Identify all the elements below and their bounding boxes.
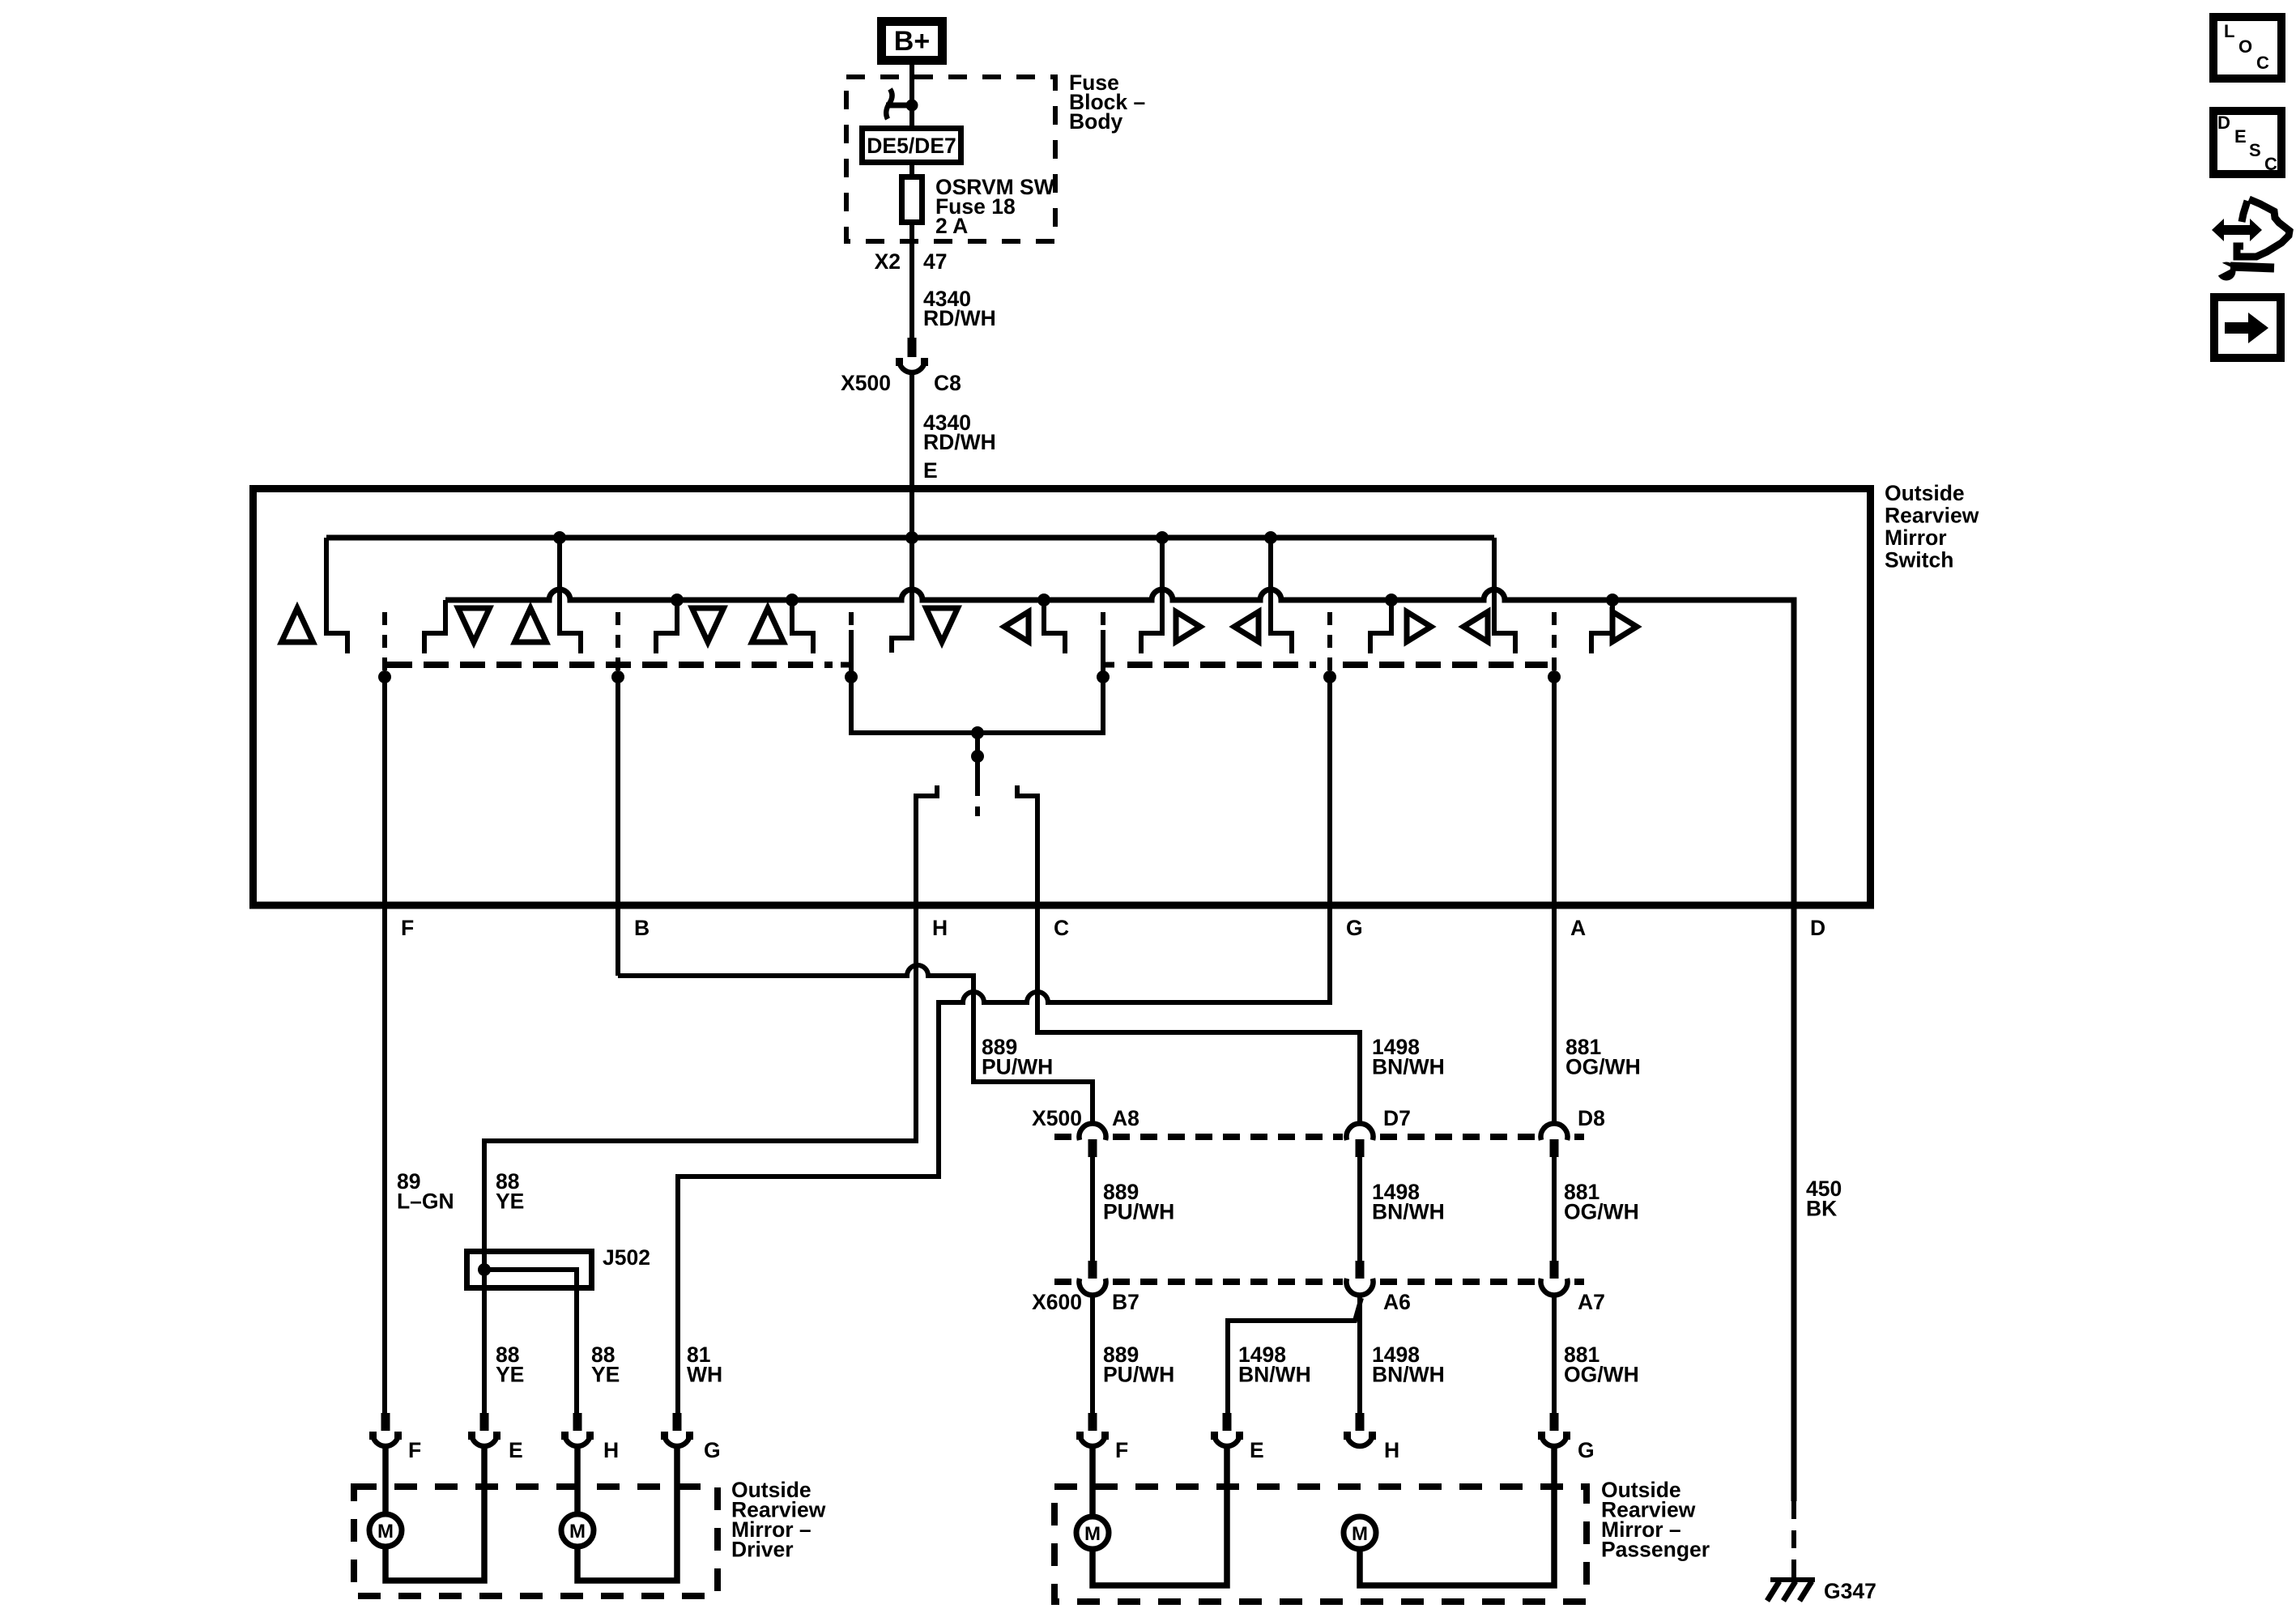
wire 881 OG/WH pin A to X500 D8 <box>1552 672 1557 1125</box>
wiper pivot dot common-left <box>845 670 858 683</box>
connector X600 B7 <box>1080 1261 1106 1296</box>
svg-text:D: D <box>2217 113 2230 133</box>
svg-text:YE: YE <box>496 1363 524 1387</box>
contact 3 <box>560 538 581 653</box>
svg-text:L: L <box>2224 21 2234 41</box>
svg-text:A: A <box>1570 916 1586 940</box>
svg-text:Body: Body <box>1069 109 1123 134</box>
label wire 1498 BN/WH (lower left) <box>1238 1343 1311 1387</box>
wire 881 OG/WH A7 to passenger G <box>1552 1295 1557 1413</box>
arrow up (driver mirror up) <box>282 608 313 642</box>
driver mirror motor M left-right <box>369 1514 402 1547</box>
wiper link bar <box>851 677 1103 733</box>
contact 4 <box>656 600 677 653</box>
arrow right <box>1407 612 1431 642</box>
E wire into switch + contact (common feed) <box>892 487 912 653</box>
passenger mirror motor M left-right <box>1076 1517 1109 1549</box>
arrow right <box>1612 612 1637 642</box>
svg-text:B: B <box>634 916 650 940</box>
driver mirror motor M up-down <box>561 1514 594 1547</box>
wiper pivot dot A <box>1548 670 1561 683</box>
wiper stem A <box>1552 612 1557 672</box>
svg-text:BN/WH: BN/WH <box>1372 1200 1445 1224</box>
svg-text:H: H <box>1384 1438 1399 1462</box>
arrow down <box>458 608 490 642</box>
wire 88 YE J502 to driver H <box>484 1270 577 1413</box>
wiper stem B <box>616 612 620 672</box>
arrow down <box>692 608 724 642</box>
junction dot bus2 x1718 <box>1385 594 1398 606</box>
label passenger pin G <box>1578 1438 1595 1462</box>
fuse rating box DE5/DE7 <box>863 129 961 163</box>
label Outside Rearview Mirror - Passenger <box>1601 1478 1710 1562</box>
svg-text:C: C <box>1054 916 1069 940</box>
label J502 <box>603 1245 650 1270</box>
coupling dashed line (left) <box>387 662 833 668</box>
wiper stem common-left <box>849 612 854 677</box>
label pin E <box>923 458 938 483</box>
label passenger pin H <box>1384 1438 1399 1462</box>
label D8 <box>1578 1106 1605 1130</box>
svg-text:B7: B7 <box>1112 1290 1139 1314</box>
arrow left <box>1004 612 1029 642</box>
label X2 <box>875 249 901 274</box>
common fixed contact left + pin H wire <box>484 785 937 1413</box>
svg-text:Rearview: Rearview <box>1885 504 1979 528</box>
connector pin passenger G <box>1538 1413 1570 1446</box>
wire 89 L-GN pin F to driver mirror <box>382 672 387 1413</box>
svg-text:X500: X500 <box>1032 1106 1082 1130</box>
icon next-page arrow box <box>2214 297 2281 358</box>
svg-text:BK: BK <box>1806 1197 1837 1221</box>
icon DESC box <box>2213 111 2281 174</box>
wire 889 PU/WH A8 to B7 <box>1090 1156 1095 1261</box>
label wire 881 OG/WH (lower) <box>1564 1343 1639 1387</box>
label wire 1498 BN/WH (upper) <box>1372 1035 1445 1079</box>
wire 1498 BN/WH pin G to driver mirror G (81 WH) <box>678 677 1330 1413</box>
label wire 889 PU/WH (mid) <box>1103 1180 1174 1224</box>
svg-text:PU/WH: PU/WH <box>1103 1363 1174 1387</box>
junction dot at clip <box>906 100 918 112</box>
svg-text:E: E <box>509 1438 523 1462</box>
connector X500 D7 <box>1347 1123 1374 1157</box>
connector pin driver F <box>369 1413 402 1446</box>
contact 5 <box>792 600 813 653</box>
svg-text:C8: C8 <box>934 371 961 395</box>
label Outside Rearview Mirror - Driver <box>731 1478 826 1562</box>
svg-text:E: E <box>2234 126 2247 147</box>
wire 881 OG/WH D8 to A7 <box>1552 1156 1557 1261</box>
junction dot bus2 x1991 <box>1606 594 1619 606</box>
label pin B <box>634 916 650 940</box>
connector row X600 dashed line <box>1054 1279 1584 1285</box>
label passenger pin E <box>1250 1438 1264 1462</box>
svg-text:O: O <box>2238 36 2252 57</box>
connector row X500 dashed line <box>1054 1134 1584 1140</box>
svg-text:A7: A7 <box>1578 1290 1605 1314</box>
svg-text:G: G <box>1346 916 1363 940</box>
wire 4340 RD/WH to switch <box>909 371 914 487</box>
contact 2 (bus2 left end) <box>424 600 445 653</box>
wire B+ to fuse block <box>909 65 914 128</box>
label pin 47 <box>923 249 947 274</box>
wiper pivot dot F <box>378 670 391 683</box>
contact 9 (bus1 right end) <box>1494 538 1515 653</box>
label wire 1498 BN/WH (mid) <box>1372 1180 1445 1224</box>
wire 1498 BN/WH D7 to A6 <box>1357 1156 1362 1261</box>
junction dot bus2 x978 <box>786 594 799 606</box>
wire driver motor to E <box>386 1445 484 1581</box>
svg-text:F: F <box>401 916 414 940</box>
icon LOC box <box>2213 17 2281 79</box>
wire 450 BK dashed to ground <box>1791 1501 1796 1577</box>
svg-text:OG/WH: OG/WH <box>1564 1363 1639 1387</box>
common stem <box>975 733 980 796</box>
fuse OSRVM SW Fuse 18 2A <box>902 177 922 223</box>
bus wire 1 (from pin E) <box>326 535 1494 541</box>
svg-text:D: D <box>1810 916 1825 940</box>
wire 1498 BN/WH A6 to passenger H <box>1357 1295 1362 1413</box>
wire 1498 BN/WH branch A6 to passenger E <box>1228 1298 1361 1413</box>
passenger mirror box (dashed) <box>1054 1487 1587 1602</box>
svg-text:X2: X2 <box>875 249 901 274</box>
label pin D <box>1810 916 1825 940</box>
arrow up <box>515 608 547 642</box>
connector pin driver H <box>561 1413 594 1446</box>
label wire 4340 RD/WH (lower) <box>923 411 996 454</box>
label wire 881 OG/WH (mid) <box>1564 1180 1639 1224</box>
label passenger pin F <box>1115 1438 1128 1462</box>
wire DE5/DE7 to fuse <box>909 162 914 177</box>
label wire 889 PU/WH (lower) <box>1103 1343 1174 1387</box>
label Outside Rearview Mirror Switch <box>1885 481 1979 572</box>
label wire 88 YE (lower left) <box>496 1343 524 1387</box>
arrow right <box>1176 612 1200 642</box>
connector pin passenger H <box>1344 1413 1376 1446</box>
wire 889 PU/WH pin B to X500 A8 <box>618 672 1093 1125</box>
label pin C <box>1054 916 1069 940</box>
svg-text:RD/WH: RD/WH <box>923 430 996 454</box>
svg-text:G: G <box>704 1438 721 1462</box>
contact 10 <box>1591 600 1612 653</box>
svg-text:DE5/DE7: DE5/DE7 <box>867 134 956 158</box>
svg-text:PU/WH: PU/WH <box>982 1055 1053 1079</box>
svg-text:J502: J502 <box>603 1245 650 1270</box>
junction dot bus1 x1569 <box>1264 531 1277 544</box>
label B7 <box>1112 1290 1139 1314</box>
label X500 (row) <box>1032 1106 1082 1130</box>
label pin F <box>401 916 414 940</box>
splice J502 junction dot <box>478 1263 491 1276</box>
svg-text:X600: X600 <box>1032 1290 1082 1314</box>
coupling stub at left linkage wiper <box>841 662 851 668</box>
wire driver motor to G <box>577 1445 677 1581</box>
label wire 88 YE (upper) <box>496 1169 524 1214</box>
wire driver F to motor <box>382 1445 389 1515</box>
label wire 881 OG/WH (upper) <box>1565 1035 1641 1079</box>
connector X600 A6 <box>1347 1261 1374 1296</box>
common stem dot <box>971 750 984 763</box>
wire passenger F to motor <box>1089 1445 1096 1517</box>
svg-text:B+: B+ <box>894 26 930 57</box>
label pin H <box>932 916 948 940</box>
svg-text:H: H <box>603 1438 619 1462</box>
svg-text:E: E <box>1250 1438 1264 1462</box>
coupling dashed line (right) <box>1343 662 1548 668</box>
label wire 450 BK <box>1806 1177 1842 1221</box>
label A7 <box>1578 1290 1605 1314</box>
wire fuse to connector X2 <box>909 222 914 339</box>
arrow up <box>752 608 784 642</box>
svg-text:M: M <box>569 1521 586 1543</box>
svg-text:47: 47 <box>923 249 947 274</box>
connector pin driver E <box>468 1413 501 1446</box>
arrow down <box>926 608 958 642</box>
svg-text:M: M <box>1084 1523 1101 1545</box>
splice J502 box <box>467 1252 592 1288</box>
wire passenger motor to G <box>1360 1445 1554 1585</box>
svg-text:A8: A8 <box>1112 1106 1139 1130</box>
svg-text:H: H <box>932 916 948 940</box>
svg-text:Driver: Driver <box>731 1538 794 1562</box>
wiper stem common-right <box>1101 612 1105 677</box>
label A6 <box>1383 1290 1411 1314</box>
label G347 <box>1824 1579 1876 1603</box>
svg-text:Mirror: Mirror <box>1885 526 1947 550</box>
label wire 81 WH <box>687 1343 722 1387</box>
svg-text:G: G <box>1578 1438 1595 1462</box>
contact 8 <box>1370 600 1391 653</box>
svg-text:C: C <box>2256 53 2269 73</box>
svg-text:BN/WH: BN/WH <box>1372 1363 1445 1387</box>
svg-text:D8: D8 <box>1578 1106 1605 1130</box>
label wire 889 PU/WH (upper) <box>982 1035 1053 1079</box>
junction dot bus1 x1435 <box>1156 531 1169 544</box>
svg-text:S: S <box>2249 140 2261 160</box>
junction dot bus1 x691 <box>553 531 566 544</box>
label pin G <box>1346 916 1363 940</box>
label A8 <box>1112 1106 1139 1130</box>
label driver pin E <box>509 1438 523 1462</box>
svg-text:G347: G347 <box>1824 1579 1876 1603</box>
bus wire 2 (to pin D) with crossover humps <box>445 589 1794 1501</box>
wire driver H to motor <box>574 1445 581 1515</box>
fuse holder clip <box>886 89 912 119</box>
junction dot bus1 x1126 <box>905 531 918 544</box>
label wire 1498 BN/WH (lower right) <box>1372 1343 1445 1387</box>
coupling dashed line (middle) <box>1127 662 1316 668</box>
connector X500 C8 (inline) <box>896 338 928 372</box>
fuse block - body (dashed box) <box>846 77 1055 241</box>
label wire 88 YE (lower right) <box>591 1343 620 1387</box>
label wire 89 L-GN <box>397 1169 454 1214</box>
common fixed contact right + pin C wire <box>1017 785 1360 1125</box>
svg-text:Outside: Outside <box>1885 481 1965 505</box>
wiper stem G <box>1327 612 1332 672</box>
label Fuse Block - Body <box>1069 70 1145 134</box>
contact 1 (bus1 left end) <box>326 538 347 653</box>
label C8 <box>934 371 961 395</box>
svg-text:X500: X500 <box>841 371 891 395</box>
label X600 (row) <box>1032 1290 1082 1314</box>
svg-text:D7: D7 <box>1383 1106 1411 1130</box>
label OSRVM SW Fuse 18 2A <box>935 175 1054 238</box>
passenger mirror motor M up-down <box>1344 1517 1376 1549</box>
svg-text:F: F <box>1115 1438 1128 1462</box>
common contact gap dash <box>975 806 980 816</box>
contact 7 <box>1271 538 1292 653</box>
arrow left <box>1463 612 1488 642</box>
junction dot bus2 x1289 <box>1037 594 1050 606</box>
ground symbol G347 <box>1767 1580 1815 1601</box>
svg-text:RD/WH: RD/WH <box>923 306 996 330</box>
svg-text:YE: YE <box>591 1363 620 1387</box>
svg-text:M: M <box>377 1521 394 1543</box>
connector X500 D8 <box>1540 1123 1567 1157</box>
driver mirror box (dashed) <box>354 1487 718 1596</box>
arrow left <box>1234 612 1259 642</box>
connector pin passenger E <box>1211 1413 1243 1446</box>
coupling stub at right linkage wiper <box>1103 662 1114 668</box>
wiper pivot dot B <box>611 670 624 683</box>
svg-text:C: C <box>2264 154 2277 174</box>
svg-text:WH: WH <box>687 1363 722 1387</box>
svg-text:L–GN: L–GN <box>397 1189 454 1214</box>
svg-text:M: M <box>1352 1523 1368 1545</box>
label driver pin G <box>704 1438 721 1462</box>
outside rearview mirror switch box <box>253 489 1871 906</box>
connector pin driver G <box>661 1413 693 1446</box>
svg-text:Switch: Switch <box>1885 548 1953 572</box>
wire passenger motor to E <box>1093 1445 1227 1585</box>
power feed B+ box <box>882 22 943 61</box>
junction dot bus2 x836 <box>671 594 684 606</box>
svg-text:E: E <box>923 458 938 483</box>
wire 889 PU/WH B7 to passenger F <box>1090 1295 1095 1413</box>
link bar junction dot <box>971 726 984 739</box>
svg-text:F: F <box>408 1438 421 1462</box>
label driver pin H <box>603 1438 619 1462</box>
svg-text:A6: A6 <box>1383 1290 1411 1314</box>
wiper pivot dot G <box>1323 670 1336 683</box>
label X500 (top) <box>841 371 891 395</box>
svg-text:YE: YE <box>496 1189 524 1214</box>
contact 11 <box>1044 600 1065 653</box>
connector X500 A8 <box>1080 1123 1106 1157</box>
svg-text:BN/WH: BN/WH <box>1238 1363 1311 1387</box>
label driver pin F <box>408 1438 421 1462</box>
wiper pivot dot common-right <box>1097 670 1110 683</box>
wiper stem F <box>382 612 387 672</box>
svg-text:OG/WH: OG/WH <box>1564 1200 1639 1224</box>
connector X600 A7 <box>1540 1261 1567 1296</box>
connector pin passenger F <box>1076 1413 1109 1446</box>
contact 6 <box>1141 538 1162 653</box>
label D7 <box>1383 1106 1411 1130</box>
svg-text:2 A: 2 A <box>935 214 968 238</box>
svg-text:Passenger: Passenger <box>1601 1538 1710 1562</box>
svg-text:OG/WH: OG/WH <box>1565 1055 1641 1079</box>
svg-text:PU/WH: PU/WH <box>1103 1200 1174 1224</box>
icon adjust (double arrow, hand, wrench) <box>2212 199 2290 281</box>
label wire 4340 RD/WH (upper) <box>923 287 996 330</box>
svg-text:BN/WH: BN/WH <box>1372 1055 1445 1079</box>
label pin A <box>1570 916 1586 940</box>
